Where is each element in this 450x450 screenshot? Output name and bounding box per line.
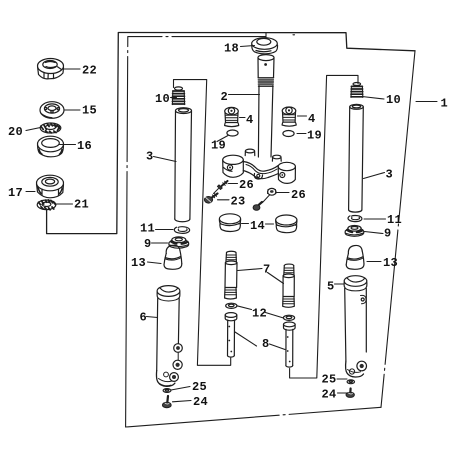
- svg-text:6: 6: [140, 311, 148, 325]
- svg-text:10: 10: [386, 93, 401, 107]
- svg-text:13: 13: [131, 256, 146, 270]
- svg-text:15: 15: [82, 104, 97, 118]
- svg-text:19: 19: [307, 129, 322, 143]
- svg-text:3: 3: [386, 168, 394, 182]
- svg-text:18: 18: [224, 42, 239, 56]
- svg-text:9: 9: [384, 227, 392, 241]
- svg-text:26: 26: [239, 178, 254, 192]
- svg-text:17: 17: [8, 186, 23, 200]
- svg-text:26: 26: [291, 188, 306, 202]
- svg-text:25: 25: [192, 380, 207, 394]
- svg-text:14: 14: [250, 219, 265, 233]
- svg-text:24: 24: [322, 388, 337, 402]
- svg-text:3: 3: [146, 150, 154, 164]
- svg-text:13: 13: [383, 256, 398, 270]
- svg-text:24: 24: [193, 395, 208, 409]
- svg-text:4: 4: [246, 113, 254, 127]
- svg-text:7: 7: [263, 263, 271, 277]
- svg-text:16: 16: [77, 139, 92, 153]
- svg-text:25: 25: [322, 373, 337, 387]
- svg-text:11: 11: [387, 213, 402, 227]
- svg-text:2: 2: [221, 90, 229, 104]
- svg-text:1: 1: [441, 97, 449, 111]
- svg-text:23: 23: [231, 195, 246, 209]
- svg-text:9: 9: [144, 237, 152, 251]
- svg-text:21: 21: [74, 198, 89, 212]
- svg-text:10: 10: [155, 92, 170, 106]
- svg-text:22: 22: [82, 64, 97, 78]
- svg-text:8: 8: [262, 337, 270, 351]
- svg-text:20: 20: [8, 125, 23, 139]
- svg-text:12: 12: [252, 307, 267, 321]
- svg-text:5: 5: [327, 280, 335, 294]
- svg-text:19: 19: [211, 139, 226, 153]
- svg-text:11: 11: [140, 222, 155, 236]
- svg-text:4: 4: [308, 112, 316, 126]
